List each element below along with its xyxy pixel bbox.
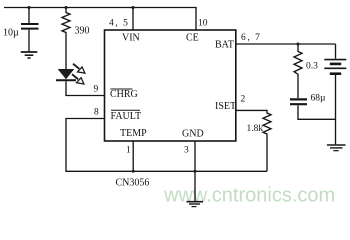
svg-text:9: 9: [94, 85, 99, 95]
svg-text:FAULT: FAULT: [111, 111, 142, 122]
svg-text:68µ: 68µ: [311, 93, 327, 103]
svg-text:6,7: 6,7: [241, 33, 260, 43]
svg-text:4,5: 4,5: [109, 19, 128, 29]
svg-text:8: 8: [94, 107, 99, 117]
svg-text:CE: CE: [186, 33, 199, 44]
svg-text:www.cntronics.com: www.cntronics.com: [163, 185, 335, 207]
svg-text:CHRG: CHRG: [110, 89, 138, 100]
svg-text:ISET: ISET: [215, 101, 236, 112]
svg-text:1.8k: 1.8k: [247, 124, 264, 134]
svg-text:1: 1: [126, 146, 131, 156]
svg-text:GND: GND: [182, 129, 204, 140]
svg-text:TEMP: TEMP: [120, 128, 147, 139]
svg-text:0.3: 0.3: [306, 62, 318, 72]
svg-text:10: 10: [198, 19, 208, 29]
svg-text:2: 2: [241, 95, 246, 105]
svg-text:BAT: BAT: [215, 40, 234, 51]
svg-text:390: 390: [75, 26, 90, 37]
svg-text:VIN: VIN: [122, 33, 140, 44]
svg-text:CN3056: CN3056: [116, 177, 150, 188]
svg-text:10µ: 10µ: [3, 28, 19, 39]
svg-text:3: 3: [184, 146, 189, 156]
